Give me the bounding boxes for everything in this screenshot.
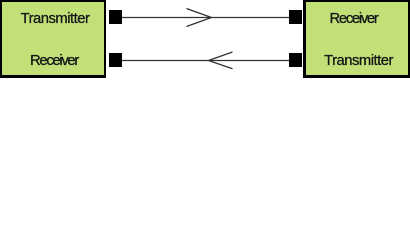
station B box [303,0,410,78]
label Transmitter (station A, top) [0,12,110,27]
port square B-top [289,10,302,24]
wire top (A to B) [122,17,289,19]
port square A-bottom [109,53,122,67]
port square A-top [109,10,122,24]
label Receiver (station B, top) [300,12,407,27]
arrowhead right (top wire) [187,9,212,27]
station A box [0,0,106,78]
wire bottom (B to A) [122,60,289,62]
label Receiver (station A, bottom) [0,54,108,69]
arrowhead left (bottom wire) [209,52,233,69]
label Transmitter (station B, bottom) [305,54,410,69]
port square B-bottom [289,53,302,67]
